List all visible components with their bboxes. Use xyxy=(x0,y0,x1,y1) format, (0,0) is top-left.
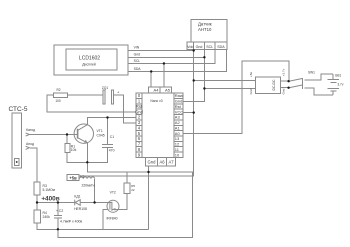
svg-text:A4: A4 xyxy=(154,87,160,92)
svg-text:SDA: SDA xyxy=(217,45,225,49)
svg-text:Gnd: Gnd xyxy=(134,53,141,57)
svg-text:ZQ1: ZQ1 xyxy=(102,86,108,90)
svg-text:9: 9 xyxy=(138,152,141,157)
svg-text:100: 100 xyxy=(55,99,61,103)
svg-text:A5: A5 xyxy=(165,87,171,92)
svg-text:1: 1 xyxy=(138,99,141,104)
svg-text:470: 470 xyxy=(109,149,115,153)
svg-text:6: 6 xyxy=(138,136,141,141)
svg-text:SDA: SDA xyxy=(134,67,142,71)
svg-text:Gnd: Gnd xyxy=(282,88,286,94)
svg-text:VCC: VCC xyxy=(175,109,184,114)
svg-text:Gnd: Gnd xyxy=(196,45,203,49)
svg-text:+: + xyxy=(117,90,120,95)
svg-text:VT1: VT1 xyxy=(97,129,103,133)
svg-text:C1: C1 xyxy=(110,135,114,139)
svg-text:8: 8 xyxy=(138,147,141,152)
svg-text:+ C2: + C2 xyxy=(56,209,63,213)
svg-text:IRF840: IRF840 xyxy=(106,217,117,221)
svg-text:L1: L1 xyxy=(81,174,85,178)
svg-text:Gnd: Gnd xyxy=(135,109,143,114)
svg-text:A1: A1 xyxy=(175,125,181,130)
svg-text:Датчик: Датчик xyxy=(198,22,212,27)
svg-text:R2: R2 xyxy=(56,88,60,92)
svg-text:13: 13 xyxy=(175,136,180,141)
svg-text:10k: 10k xyxy=(71,148,77,152)
svg-text:Vdd: Vdd xyxy=(187,45,193,49)
svg-text:Анод: Анод xyxy=(26,142,34,146)
svg-text:A6: A6 xyxy=(159,160,165,165)
svg-text:4.7мкФ х 400в: 4.7мкФ х 400в xyxy=(60,219,82,223)
svg-text:5.1МОм: 5.1МОм xyxy=(43,188,56,192)
svg-text:LCD1602: LCD1602 xyxy=(79,56,100,62)
svg-text:Gnd: Gnd xyxy=(148,160,157,165)
svg-text:5: 5 xyxy=(138,131,141,136)
svg-text:3.7v: 3.7v xyxy=(337,82,343,86)
svg-text:DC-DC: DC-DC xyxy=(272,79,276,90)
svg-text:11: 11 xyxy=(175,147,180,152)
svg-text:HER108: HER108 xyxy=(74,207,87,211)
svg-text:Gnd: Gnd xyxy=(175,99,183,104)
svg-text:12: 12 xyxy=(175,142,180,147)
svg-text:+5в: +5в xyxy=(69,175,77,180)
svg-text:4: 4 xyxy=(138,125,141,130)
svg-text:+400в: +400в xyxy=(41,196,59,203)
svg-text:Rst: Rst xyxy=(175,104,182,109)
svg-text:СТС-5: СТС-5 xyxy=(9,106,28,113)
svg-text:Nano v3: Nano v3 xyxy=(150,99,162,103)
svg-text:22: 22 xyxy=(131,188,135,192)
svg-text:2: 2 xyxy=(138,115,141,120)
svg-text:A7: A7 xyxy=(168,160,174,165)
svg-text:КД1: КД1 xyxy=(74,195,80,199)
svg-text:Rst: Rst xyxy=(136,104,143,109)
svg-text:3: 3 xyxy=(138,120,141,125)
svg-text:Raw: Raw xyxy=(175,93,183,98)
svg-text:Дисплей: Дисплей xyxy=(82,63,96,67)
svg-text:A0: A0 xyxy=(175,131,181,136)
svg-text:SCL: SCL xyxy=(206,45,213,49)
svg-text:+3.7v: +3.7v xyxy=(282,68,286,76)
svg-text:VIN: VIN xyxy=(134,46,140,50)
svg-text:0: 0 xyxy=(138,93,141,98)
svg-text:Катод: Катод xyxy=(26,128,35,132)
svg-text:SCL: SCL xyxy=(134,59,141,63)
svg-text:10: 10 xyxy=(175,152,180,157)
svg-text:+5в: +5в xyxy=(249,72,253,77)
svg-text:VT2: VT2 xyxy=(110,191,116,195)
svg-text:A2: A2 xyxy=(175,120,181,125)
svg-text:A3: A3 xyxy=(175,115,181,120)
svg-text:C945: C945 xyxy=(97,134,105,138)
svg-text:Gnd: Gnd xyxy=(249,88,253,94)
svg-text:240k: 240k xyxy=(43,215,51,219)
svg-text:7: 7 xyxy=(138,142,141,147)
svg-text:AHT10: AHT10 xyxy=(198,27,212,32)
svg-text:220мкГн: 220мкГн xyxy=(82,183,95,187)
svg-text:GB1: GB1 xyxy=(335,74,342,78)
svg-text:SW1: SW1 xyxy=(308,71,315,75)
